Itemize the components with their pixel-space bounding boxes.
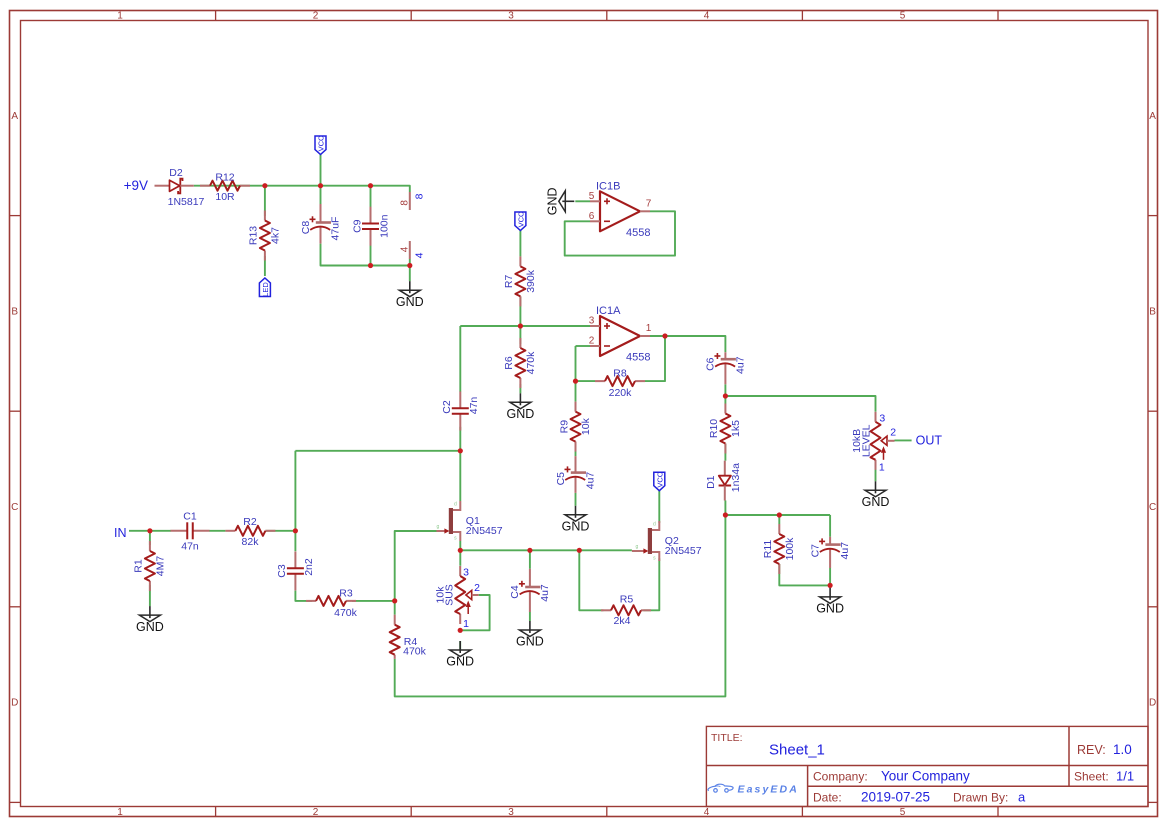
capacitor C6: [705, 352, 747, 384]
svg-text:1N5817: 1N5817: [168, 196, 205, 208]
wire pin4 to bottom rail: [409, 259, 411, 266]
svg-text:C2: C2: [441, 400, 453, 414]
wire IN node to R1: [149, 531, 151, 545]
junction R3/R4/gate line: [392, 598, 397, 603]
capacitor C2: [441, 392, 480, 431]
svg-text:IC1B: IC1B: [596, 180, 620, 192]
ground GND (IC1B pin5): [546, 187, 575, 215]
resistor R12: [200, 171, 250, 203]
potentiometer RP LEVEL 10kB: [851, 412, 896, 474]
junction ground rail / pin4: [407, 263, 412, 268]
junction R11 top: [777, 512, 782, 517]
svg-text:4558: 4558: [626, 227, 650, 239]
resistor R1: [133, 541, 167, 591]
transistor Q1 2N5457: [436, 501, 502, 542]
svg-text:1: 1: [646, 323, 652, 334]
net flag LED: [259, 278, 270, 297]
svg-text:4: 4: [704, 807, 710, 818]
junction C6/R10/LEVEL: [723, 393, 728, 398]
svg-text:2N5457: 2N5457: [665, 545, 702, 557]
svg-text:R3: R3: [339, 587, 353, 599]
svg-text:EasyEDA: EasyEDA: [738, 783, 799, 795]
svg-text:7: 7: [646, 198, 652, 209]
svg-text:GND: GND: [136, 620, 164, 634]
wire SUS pin1 to GND: [459, 641, 461, 654]
svg-text:REV:: REV:: [1077, 743, 1106, 757]
junction source rail / C4: [527, 548, 532, 553]
svg-text:3: 3: [463, 566, 469, 578]
wire R13 to LED flag: [264, 256, 266, 276]
wire rail to C4: [529, 550, 531, 569]
capacitor C5: [555, 456, 597, 493]
svg-text:GND: GND: [862, 495, 890, 509]
wire GND flag to IC1B pin5: [575, 200, 590, 202]
svg-text:10kB: 10kB: [851, 429, 863, 453]
junction node A R7/R6/IC1A+: [518, 323, 523, 328]
resistor R7: [503, 256, 537, 306]
svg-text:R13: R13: [248, 226, 260, 245]
capacitor C9: [351, 207, 390, 246]
wire C3 to R3: [295, 591, 312, 601]
junction power rail / R13: [262, 183, 267, 188]
junction power rail / C9: [368, 183, 373, 188]
resistor R13: [248, 211, 282, 261]
resistor R4: [390, 615, 427, 659]
svg-text:1/1: 1/1: [1116, 769, 1134, 784]
svg-text:100n: 100n: [378, 214, 390, 238]
svg-text:2: 2: [589, 336, 595, 347]
wire C9 to bottom rail: [370, 244, 372, 266]
wire R8 node to R8: [576, 380, 596, 382]
capacitor C7: [809, 537, 851, 568]
svg-text:Company:: Company:: [813, 770, 868, 784]
svg-text:5: 5: [900, 807, 906, 818]
junction power rail / C8 VCC: [318, 183, 323, 188]
svg-text:C9: C9: [351, 219, 363, 233]
svg-text:4: 4: [414, 252, 426, 258]
svg-text:100k: 100k: [784, 537, 796, 561]
svg-text:R11: R11: [762, 540, 774, 559]
wire rail to C9: [370, 186, 372, 216]
wire D1 to node B: [724, 501, 726, 516]
wire node A to R6: [519, 326, 521, 344]
op-amp IC1B: [589, 180, 652, 239]
svg-text:2: 2: [313, 807, 319, 818]
svg-text:4k7: 4k7: [269, 227, 281, 244]
svg-text:Drawn By:: Drawn By:: [953, 790, 1008, 804]
capacitor C8: [300, 204, 342, 244]
wire to R11: [778, 515, 780, 524]
svg-text:GND: GND: [516, 635, 544, 649]
ground GND (C4): [516, 621, 544, 649]
net flag VCC (R7): [515, 211, 526, 230]
svg-text:2n2: 2n2: [303, 558, 315, 576]
svg-text:82k: 82k: [242, 536, 260, 548]
wire node B to R11 C7: [725, 514, 830, 516]
svg-text:VCC: VCC: [317, 135, 326, 151]
svg-text:2019-07-25: 2019-07-25: [861, 789, 930, 804]
junction ground rail / C9: [368, 263, 373, 268]
wire R6 to GND: [519, 384, 521, 393]
svg-text:3: 3: [879, 413, 885, 425]
svg-text:C: C: [1149, 502, 1156, 513]
svg-text:d: d: [454, 502, 457, 508]
wire R11 bottom: [779, 564, 830, 585]
capacitor C3: [276, 552, 315, 591]
junction IN / R1: [147, 528, 152, 533]
svg-text:470k: 470k: [403, 646, 427, 658]
svg-text:R12: R12: [215, 171, 234, 183]
wire IC1B output pin7 feedback to pin6: [565, 211, 675, 255]
wire node A down to C2: [459, 326, 461, 392]
svg-text:4558: 4558: [626, 352, 650, 364]
wire VCC flag to rail: [320, 155, 322, 186]
svg-text:GND: GND: [562, 520, 590, 534]
svg-text:C4: C4: [509, 585, 521, 599]
diode D1: [705, 461, 742, 501]
wire pin2 down to R8 node: [575, 346, 577, 381]
wire C5 to GND: [575, 493, 577, 506]
svg-text:R10: R10: [708, 419, 720, 438]
resistor R3: [306, 587, 358, 618]
diode D2: [168, 167, 205, 208]
svg-text:OUT: OUT: [916, 434, 943, 448]
svg-text:1: 1: [117, 807, 123, 818]
junction source rail / Q2 gate / R5: [577, 548, 582, 553]
svg-text:C3: C3: [276, 564, 288, 578]
junction SUS pin1 / wiper: [458, 628, 463, 633]
svg-text:1k5: 1k5: [730, 420, 742, 437]
op-amp IC1A: [589, 305, 652, 364]
svg-text:Your Company: Your Company: [881, 769, 970, 784]
svg-text:IN: IN: [114, 526, 127, 540]
svg-text:VCC: VCC: [656, 471, 665, 487]
svg-text:s: s: [653, 556, 656, 562]
wire R3 to node C: [352, 600, 395, 602]
svg-text:4M7: 4M7: [154, 556, 166, 577]
ground GND (SUS): [446, 641, 474, 669]
svg-text:390k: 390k: [525, 269, 537, 293]
svg-text:47n: 47n: [181, 540, 199, 552]
svg-text:1n34a: 1n34a: [730, 463, 742, 492]
junction C2 / Q1 drain: [458, 448, 463, 453]
resistor R6: [503, 338, 537, 388]
svg-text:C: C: [11, 502, 18, 513]
wire R5 to gate node: [579, 550, 603, 610]
svg-text:C1: C1: [183, 510, 197, 522]
wire IC1A pin2: [576, 345, 591, 347]
svg-text:GND: GND: [507, 407, 535, 421]
svg-text:1: 1: [463, 618, 469, 630]
wire C1 to R2: [209, 530, 225, 532]
svg-text:1: 1: [879, 462, 885, 474]
wire SUS wiper loop to pin1: [460, 595, 489, 630]
svg-text:2: 2: [474, 582, 480, 594]
svg-text:R1: R1: [133, 559, 145, 573]
svg-text:B: B: [11, 307, 18, 318]
svg-text:d: d: [653, 522, 656, 528]
svg-text:D: D: [1149, 698, 1156, 709]
IC power pin 4: [399, 241, 425, 259]
svg-text:GND: GND: [446, 655, 474, 669]
svg-text:5: 5: [589, 191, 595, 202]
resistor R10: [708, 404, 742, 454]
svg-text:R2: R2: [243, 516, 257, 528]
svg-text:a: a: [1018, 789, 1026, 804]
svg-text:6: 6: [589, 211, 595, 222]
net flag VCC (power rail): [315, 135, 326, 154]
ground GND (LEVEL): [862, 481, 890, 509]
wire input node vertical: [294, 451, 296, 551]
svg-text:1.0: 1.0: [1113, 742, 1132, 757]
svg-text:Sheet_1: Sheet_1: [769, 742, 825, 759]
trimmer potentiometer SUS 10k: [435, 566, 480, 630]
wire source rail: [460, 549, 579, 551]
svg-text:+9V: +9V: [124, 178, 148, 193]
transistor Q2 2N5457: [632, 521, 702, 562]
svg-text:GND: GND: [396, 295, 424, 309]
svg-text:47uF: 47uF: [330, 217, 342, 241]
wire IN to C1: [129, 530, 171, 532]
capacitor C1: [171, 510, 210, 552]
junction Q1 source / SUS: [458, 548, 463, 553]
wire C8 bottom to GND rail: [321, 244, 410, 282]
svg-text:10k: 10k: [580, 417, 592, 435]
svg-text:4u7: 4u7: [539, 584, 551, 602]
svg-text:D: D: [11, 698, 18, 709]
svg-text:VCC: VCC: [517, 211, 526, 227]
wire power rail: [194, 186, 410, 192]
wire C4 to GND: [529, 612, 531, 621]
svg-text:4u7: 4u7: [735, 356, 747, 374]
svg-text:C5: C5: [555, 472, 567, 486]
junction R8/R9/IC1A-: [573, 379, 578, 384]
wire rail to C8: [320, 186, 322, 204]
svg-text:8: 8: [399, 200, 410, 206]
svg-text:8: 8: [414, 193, 426, 199]
ground GND (power): [396, 281, 424, 309]
svg-text:1: 1: [117, 11, 123, 22]
wire long bottom return: [395, 515, 726, 696]
wire C6 to R10 node: [724, 384, 726, 403]
svg-text:2: 2: [313, 11, 319, 22]
svg-text:4u7: 4u7: [839, 542, 851, 560]
wire node A to IC1A pin3: [460, 325, 590, 327]
wire out down to R8: [645, 336, 665, 381]
svg-text:R6: R6: [503, 356, 515, 370]
EasyEDA logo: [708, 783, 799, 795]
svg-text:LED: LED: [261, 282, 270, 297]
svg-text:D1: D1: [705, 475, 717, 489]
wire rail to Q2 gate: [579, 549, 632, 551]
svg-text:R9: R9: [558, 420, 570, 434]
svg-text:4u7: 4u7: [585, 472, 597, 490]
capacitor C4: [509, 569, 551, 612]
ground GND (R1): [136, 606, 164, 634]
svg-text:B: B: [1149, 307, 1156, 318]
wire rail to R13: [264, 186, 266, 216]
wire C2 bottom to node: [459, 427, 461, 451]
svg-text:10R: 10R: [215, 191, 235, 203]
junction D1/R11 node: [723, 512, 728, 517]
wire C6 node to LEVEL pot pin3: [725, 396, 875, 412]
wire Q2 source down to R5: [643, 558, 659, 610]
wire R9 to C5: [575, 442, 577, 457]
title block: [706, 726, 1148, 806]
svg-text:R5: R5: [620, 593, 634, 605]
svg-text:g: g: [636, 544, 639, 550]
wire R1 to GND: [149, 585, 151, 606]
wire LEVEL wiper to OUT: [895, 439, 912, 441]
svg-text:3: 3: [508, 11, 514, 22]
wire rail to SUS pot: [459, 550, 461, 566]
wire R2 to input node: [265, 530, 295, 532]
svg-text:TITLE:: TITLE:: [711, 732, 743, 744]
svg-text:GND: GND: [816, 602, 844, 616]
net flag VCC (Q2): [654, 471, 665, 490]
wire IC1A out to C6: [650, 336, 725, 352]
wire C7 bottom to GND: [829, 568, 831, 588]
resistor R5: [601, 593, 651, 627]
svg-text:4: 4: [704, 11, 710, 22]
wire R8 node to R9: [575, 381, 577, 402]
svg-text:C6: C6: [705, 357, 717, 371]
svg-text:A: A: [11, 111, 18, 122]
svg-text:C7: C7: [809, 544, 821, 558]
svg-text:R8: R8: [613, 367, 627, 379]
svg-text:4: 4: [399, 246, 410, 252]
svg-text:2: 2: [890, 427, 896, 439]
net port +9V: [124, 178, 169, 193]
wire R7 to node A: [519, 296, 521, 326]
svg-text:D2: D2: [169, 167, 183, 179]
resistor R8: [595, 367, 645, 399]
ground GND (C7/R11): [816, 588, 844, 616]
svg-text:470k: 470k: [334, 607, 358, 619]
wire R10 to D1: [724, 444, 726, 461]
svg-text:220k: 220k: [609, 387, 633, 399]
junction R2 / C3: [293, 528, 298, 533]
svg-text:Sheet:: Sheet:: [1074, 770, 1109, 784]
wire VCC flag to R7: [519, 231, 521, 257]
wire VCC to Q2 drain: [658, 491, 660, 523]
svg-text:GND: GND: [546, 187, 560, 215]
svg-text:Date:: Date:: [813, 790, 842, 804]
svg-text:47n: 47n: [468, 397, 480, 415]
svg-text:g: g: [437, 524, 440, 530]
ground GND (C5): [562, 506, 590, 534]
svg-text:IC1A: IC1A: [596, 305, 621, 317]
wire LEVEL pin1 to GND: [875, 469, 877, 481]
svg-text:s: s: [454, 536, 457, 542]
svg-text:10k: 10k: [435, 586, 447, 604]
svg-text:3: 3: [508, 807, 514, 818]
ground GND (R6): [507, 393, 535, 421]
resistor R11: [762, 524, 796, 574]
svg-text:470k: 470k: [525, 351, 537, 375]
svg-text:R7: R7: [503, 275, 515, 289]
junction C7 bottom / GND: [828, 583, 833, 588]
svg-text:A: A: [1149, 111, 1156, 122]
wire node C up to Q1 gate: [395, 531, 438, 601]
junction IC1A output: [662, 333, 667, 338]
wire top link to C2 node: [295, 450, 460, 452]
resistor R9: [558, 402, 592, 452]
IC power pin 8: [399, 192, 425, 210]
wire node C to R4: [394, 601, 396, 615]
svg-text:2N5457: 2N5457: [466, 525, 503, 537]
wire Q1 source to rail: [459, 541, 461, 550]
resistor R2: [225, 516, 275, 548]
wire node down to Q1 drain: [459, 451, 461, 501]
svg-text:3: 3: [589, 316, 595, 327]
wire to C7: [829, 515, 831, 537]
svg-text:5: 5: [900, 11, 906, 22]
svg-text:2k4: 2k4: [614, 615, 631, 627]
svg-text:C8: C8: [300, 221, 312, 235]
